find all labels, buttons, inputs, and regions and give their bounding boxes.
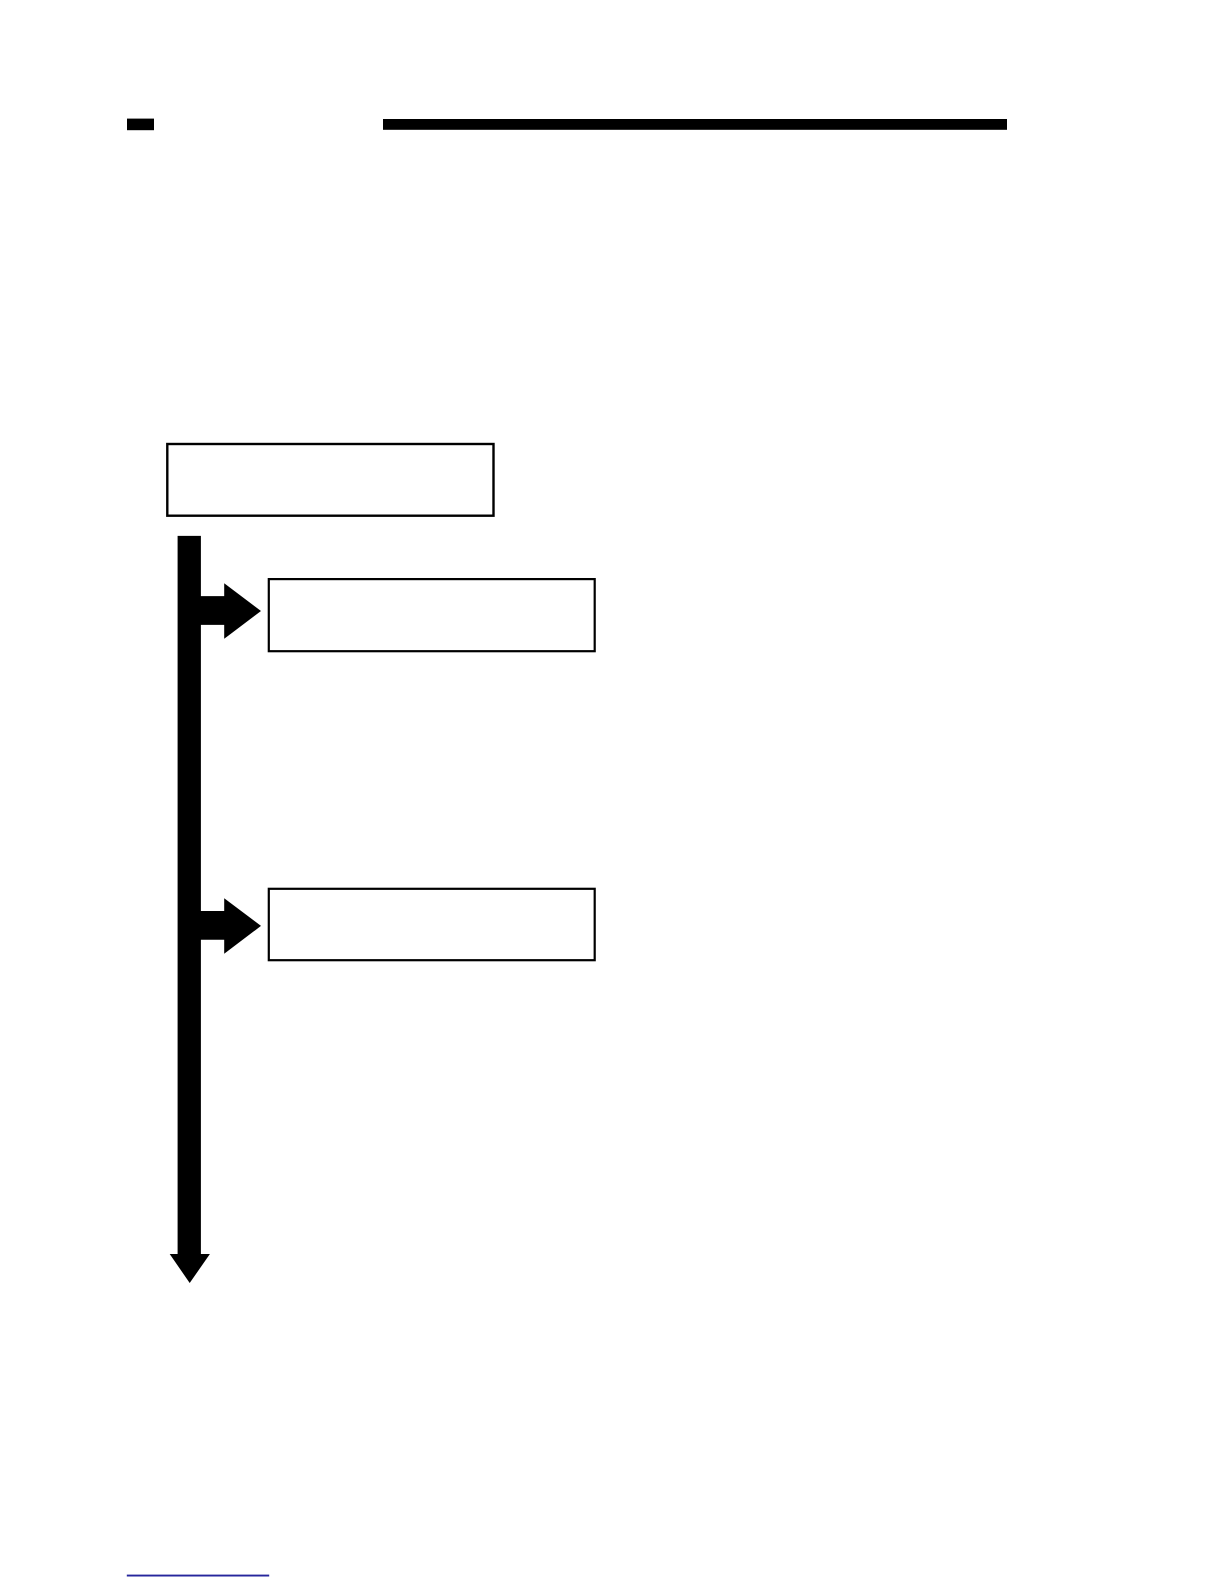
box 1 bbox=[167, 444, 493, 516]
bullet marker bbox=[127, 119, 154, 131]
box 3 bbox=[269, 889, 595, 960]
branch arrow 2 bbox=[190, 898, 261, 954]
footnote rule bbox=[127, 1575, 269, 1577]
branch arrow 1 bbox=[190, 583, 261, 639]
vertical arrow bbox=[170, 536, 210, 1283]
box 2 bbox=[269, 579, 595, 651]
header rule bbox=[383, 119, 1007, 130]
